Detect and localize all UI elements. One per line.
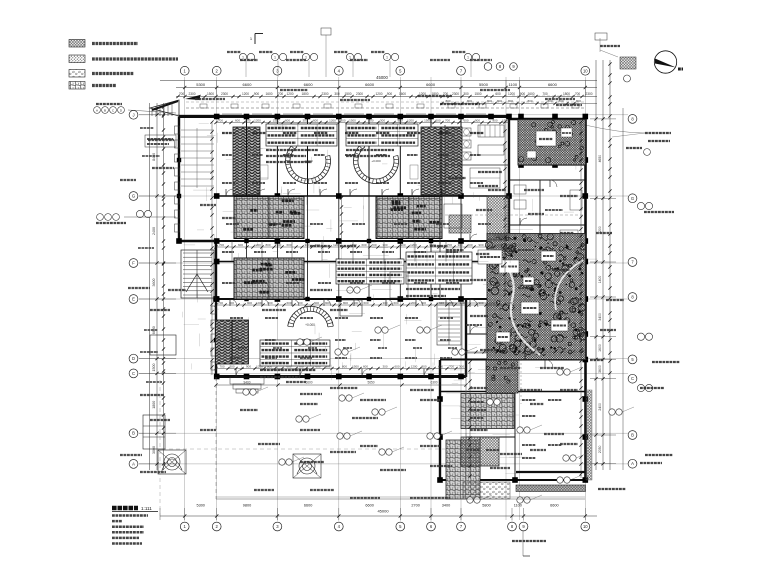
svg-text:600: 600 <box>394 364 399 368</box>
svg-text:600: 600 <box>435 118 440 122</box>
svg-text:800: 800 <box>487 99 492 103</box>
svg-text:800: 800 <box>265 243 270 247</box>
svg-text:800: 800 <box>496 243 501 247</box>
svg-text:2050: 2050 <box>598 445 602 453</box>
svg-text:6600: 6600 <box>304 504 312 508</box>
svg-text:800: 800 <box>421 301 426 305</box>
svg-text:B: B <box>104 108 106 112</box>
svg-text:300: 300 <box>459 301 464 305</box>
svg-text:700: 700 <box>278 92 284 96</box>
svg-text:300: 300 <box>304 243 309 247</box>
svg-text:B: B <box>631 433 634 438</box>
svg-text:900: 900 <box>397 118 402 122</box>
svg-text:300: 300 <box>382 301 387 305</box>
svg-text:9400: 9400 <box>243 381 250 385</box>
svg-text:1500: 1500 <box>273 118 280 122</box>
svg-text:2300: 2300 <box>221 92 228 96</box>
svg-text:600: 600 <box>439 301 444 305</box>
svg-text:1500: 1500 <box>352 364 359 368</box>
svg-text:700: 700 <box>449 364 454 368</box>
svg-text:900: 900 <box>475 118 480 122</box>
svg-text:1100: 1100 <box>508 82 517 87</box>
svg-text:700: 700 <box>179 92 185 96</box>
svg-text:1600: 1600 <box>265 92 272 96</box>
svg-text:700: 700 <box>218 118 223 122</box>
svg-text:1500: 1500 <box>349 118 356 122</box>
svg-text:6600: 6600 <box>243 82 253 87</box>
svg-text:700: 700 <box>218 301 223 305</box>
svg-text:900: 900 <box>400 243 405 247</box>
svg-text:A: A <box>96 108 98 112</box>
svg-text:300: 300 <box>334 92 340 96</box>
svg-text:2400: 2400 <box>598 403 602 411</box>
svg-text:600: 600 <box>467 243 472 247</box>
svg-text:300: 300 <box>382 364 387 368</box>
svg-text:6600: 6600 <box>550 504 558 508</box>
svg-text:1200: 1200 <box>375 92 382 96</box>
svg-text:800: 800 <box>340 118 345 122</box>
svg-text:600: 600 <box>313 118 318 122</box>
svg-text:800: 800 <box>343 301 348 305</box>
svg-text:800: 800 <box>492 118 497 122</box>
svg-text:1200: 1200 <box>333 243 340 247</box>
svg-text:1800: 1800 <box>152 401 156 409</box>
svg-text:5500: 5500 <box>479 82 489 87</box>
svg-text:2400: 2400 <box>152 227 156 235</box>
svg-text:800: 800 <box>527 99 532 103</box>
svg-text:600: 600 <box>235 118 240 122</box>
svg-text:6300: 6300 <box>430 381 437 385</box>
svg-text:6600: 6600 <box>304 82 314 87</box>
svg-text:D: D <box>132 356 135 361</box>
svg-text:3000: 3000 <box>152 446 156 454</box>
svg-text:1: 1 <box>467 56 469 60</box>
svg-text:1200: 1200 <box>242 92 249 96</box>
svg-text:3400: 3400 <box>442 504 450 508</box>
svg-text:E: E <box>132 297 135 302</box>
svg-text:600: 600 <box>238 243 243 247</box>
svg-text:900: 900 <box>247 301 252 305</box>
svg-text:9800: 9800 <box>243 504 251 508</box>
svg-text:900: 900 <box>387 92 393 96</box>
svg-text:1200: 1200 <box>489 301 496 305</box>
svg-text:6600: 6600 <box>365 504 373 508</box>
svg-text:1500: 1500 <box>505 301 512 305</box>
svg-text:3600: 3600 <box>152 279 156 287</box>
svg-text:1600: 1600 <box>399 92 406 96</box>
svg-text:900: 900 <box>246 364 251 368</box>
svg-text:800: 800 <box>445 99 450 103</box>
svg-text:G: G <box>132 194 135 199</box>
svg-text:300: 300 <box>459 364 464 368</box>
svg-text:1500: 1500 <box>207 92 214 96</box>
svg-text:6600: 6600 <box>305 381 312 385</box>
svg-text:2700: 2700 <box>411 504 419 508</box>
svg-text:700: 700 <box>371 243 376 247</box>
svg-text:600: 600 <box>285 118 290 122</box>
svg-text:600: 600 <box>314 301 319 305</box>
svg-text:1200: 1200 <box>256 301 263 305</box>
svg-text:600: 600 <box>363 364 368 368</box>
svg-text:2300: 2300 <box>585 92 592 96</box>
svg-text:2300: 2300 <box>452 92 459 96</box>
svg-text:700: 700 <box>368 118 373 122</box>
svg-text:800: 800 <box>508 99 513 103</box>
svg-text:10: 10 <box>583 68 588 73</box>
svg-text:700: 700 <box>219 243 224 247</box>
svg-text:900: 900 <box>245 118 250 122</box>
svg-text:1: 1 <box>274 56 276 60</box>
svg-text:700: 700 <box>575 92 581 96</box>
svg-text:C: C <box>631 376 634 381</box>
svg-text:600: 600 <box>286 243 291 247</box>
svg-text:900: 900 <box>254 92 260 96</box>
svg-text:800: 800 <box>558 99 563 103</box>
svg-text:1800: 1800 <box>563 92 570 96</box>
svg-text:300: 300 <box>463 92 469 96</box>
svg-text:4650: 4650 <box>598 155 602 163</box>
svg-text:3400: 3400 <box>598 313 602 321</box>
svg-text:1400: 1400 <box>598 276 602 284</box>
svg-text:1500: 1500 <box>424 118 431 122</box>
svg-text:600: 600 <box>393 301 398 305</box>
svg-text:1200: 1200 <box>508 92 515 96</box>
svg-text:1200: 1200 <box>329 118 336 122</box>
svg-text:1500: 1500 <box>474 92 481 96</box>
svg-text:300: 300 <box>457 243 462 247</box>
svg-text:1500: 1500 <box>352 301 359 305</box>
svg-text:+0.000: +0.000 <box>371 159 381 163</box>
svg-text:1100: 1100 <box>514 504 522 508</box>
svg-text:F: F <box>132 261 135 266</box>
svg-text:300: 300 <box>382 243 387 247</box>
svg-text:1200: 1200 <box>410 243 417 247</box>
svg-text:5650: 5650 <box>367 381 374 385</box>
svg-text:800: 800 <box>576 99 581 103</box>
svg-text:6600: 6600 <box>365 82 375 87</box>
svg-text:1200: 1200 <box>409 301 416 305</box>
svg-text:B: B <box>132 431 135 436</box>
svg-text:300: 300 <box>302 118 307 122</box>
svg-text:700: 700 <box>445 118 450 122</box>
svg-text:45000: 45000 <box>376 75 388 80</box>
svg-text:1800: 1800 <box>301 92 308 96</box>
svg-text:5300: 5300 <box>196 504 204 508</box>
svg-text:1500: 1500 <box>152 364 156 372</box>
svg-text:900: 900 <box>520 92 526 96</box>
svg-text:6600: 6600 <box>548 82 558 87</box>
svg-text:A: A <box>631 461 634 466</box>
svg-text:1500: 1500 <box>506 243 513 247</box>
svg-text:2300: 2300 <box>321 92 328 96</box>
svg-text:300: 300 <box>380 118 385 122</box>
svg-text:300: 300 <box>229 364 234 368</box>
svg-text:1500: 1500 <box>344 92 351 96</box>
svg-text:600: 600 <box>363 301 368 305</box>
svg-text:45000: 45000 <box>377 509 389 514</box>
svg-text:G: G <box>631 196 634 201</box>
svg-text:800: 800 <box>497 99 502 103</box>
svg-text:800: 800 <box>547 99 552 103</box>
svg-text:600: 600 <box>438 364 443 368</box>
svg-text:1200: 1200 <box>286 92 293 96</box>
svg-text:600: 600 <box>361 243 366 247</box>
svg-text:1: 1 <box>386 56 388 60</box>
svg-text:+0.000: +0.000 <box>305 323 315 327</box>
svg-text:900: 900 <box>478 243 483 247</box>
svg-text:J: J <box>132 112 134 117</box>
svg-text:10: 10 <box>583 524 588 529</box>
svg-text:1:111: 1:111 <box>141 506 152 511</box>
svg-text:1200: 1200 <box>407 118 414 122</box>
svg-text:1500: 1500 <box>275 243 282 247</box>
svg-text:3600: 3600 <box>598 365 602 373</box>
svg-text:C: C <box>132 371 135 376</box>
svg-text:800: 800 <box>467 99 472 103</box>
svg-text:A: A <box>132 461 135 466</box>
svg-text:600: 600 <box>495 92 501 96</box>
svg-text:2300: 2300 <box>356 92 363 96</box>
svg-text:1200: 1200 <box>411 364 418 368</box>
svg-text:5800: 5800 <box>482 504 490 508</box>
svg-text:1200: 1200 <box>254 118 261 122</box>
svg-text:600: 600 <box>286 301 291 305</box>
svg-text:900: 900 <box>478 301 483 305</box>
svg-text:700: 700 <box>542 92 548 96</box>
svg-text:700: 700 <box>219 364 224 368</box>
svg-text:1600: 1600 <box>598 344 602 352</box>
svg-text:5300: 5300 <box>196 82 206 87</box>
svg-text:800: 800 <box>421 364 426 368</box>
svg-text:2300: 2300 <box>188 92 195 96</box>
svg-text:600: 600 <box>463 118 468 122</box>
svg-text:800: 800 <box>342 364 347 368</box>
svg-text:6600: 6600 <box>426 82 436 87</box>
svg-text:1600: 1600 <box>527 92 534 96</box>
